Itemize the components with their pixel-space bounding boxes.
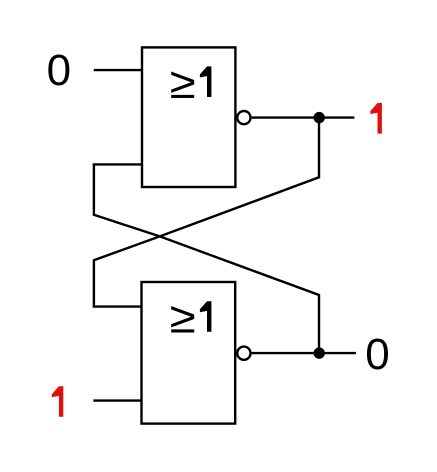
svg-text:≥: ≥: [170, 59, 196, 108]
svg-text:≥: ≥: [170, 293, 196, 342]
svg-text:0: 0: [47, 46, 71, 95]
svg-text:0: 0: [365, 330, 389, 379]
